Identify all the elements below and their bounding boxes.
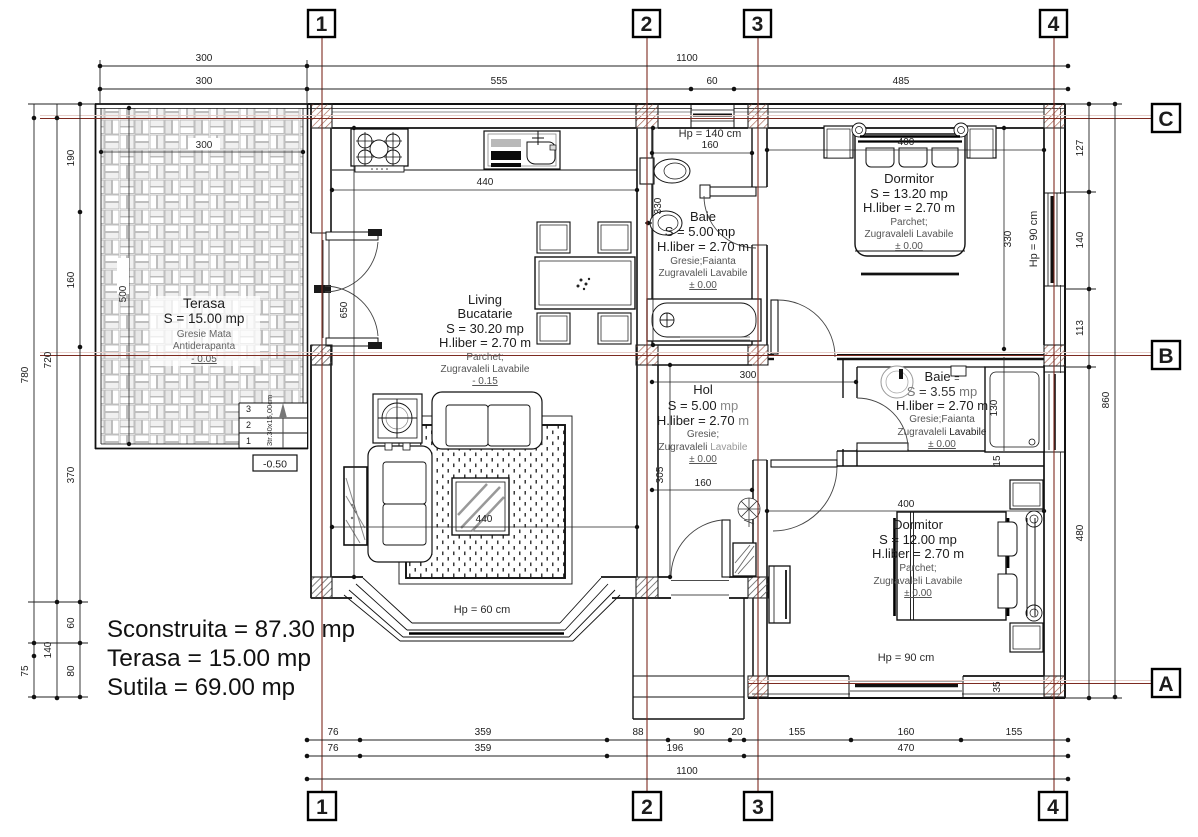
svg-text:S = 13.20 mp: S = 13.20 mp bbox=[870, 186, 948, 201]
svg-text:75: 75 bbox=[20, 665, 31, 677]
svg-text:Dormitor: Dormitor bbox=[893, 517, 944, 532]
svg-text:S = 5.00 mp: S = 5.00 mp bbox=[665, 224, 735, 239]
svg-text:1: 1 bbox=[316, 796, 328, 819]
svg-text:Gresie;Faianta: Gresie;Faianta bbox=[670, 256, 736, 267]
svg-text:Living: Living bbox=[468, 292, 502, 307]
svg-text:± 0.00: ± 0.00 bbox=[928, 439, 956, 450]
svg-text:Zugravaleli Lavabile: Zugravaleli Lavabile bbox=[659, 268, 748, 279]
svg-text:Zugravaleli Lavabile: Zugravaleli Lavabile bbox=[659, 442, 748, 453]
svg-text:Parchet;: Parchet; bbox=[899, 563, 936, 574]
svg-text:H.liber = 2.70 m: H.liber = 2.70 m bbox=[872, 546, 964, 561]
svg-text:359: 359 bbox=[475, 743, 492, 754]
svg-text:H.liber = 2.70 m: H.liber = 2.70 m bbox=[896, 398, 988, 413]
svg-text:3: 3 bbox=[246, 404, 251, 414]
svg-text:4: 4 bbox=[1047, 796, 1059, 819]
svg-text:140: 140 bbox=[43, 641, 54, 658]
svg-text:480: 480 bbox=[1075, 524, 1086, 541]
svg-text:2: 2 bbox=[246, 420, 251, 430]
svg-text:440: 440 bbox=[477, 177, 494, 188]
svg-text:Bucatarie: Bucatarie bbox=[458, 306, 513, 321]
svg-text:15: 15 bbox=[992, 455, 1003, 467]
svg-text:- 0.15: - 0.15 bbox=[472, 376, 498, 387]
svg-text:Sconstruita = 87.30 mp: Sconstruita = 87.30 mp bbox=[107, 616, 355, 643]
svg-text:Sutila = 69.00 mp: Sutila = 69.00 mp bbox=[107, 674, 295, 701]
svg-text:60: 60 bbox=[706, 76, 718, 87]
svg-text:Terasa: Terasa bbox=[183, 295, 225, 311]
svg-text:H.liber = 2.70 m: H.liber = 2.70 m bbox=[657, 413, 749, 428]
svg-text:Terasa = 15.00 mp: Terasa = 15.00 mp bbox=[107, 645, 311, 672]
svg-text:Hp = 60 cm: Hp = 60 cm bbox=[454, 604, 511, 616]
svg-text:Hp = 90 cm: Hp = 90 cm bbox=[1028, 211, 1040, 268]
svg-text:Hp = 90 cm: Hp = 90 cm bbox=[878, 652, 935, 664]
svg-text:1100: 1100 bbox=[676, 766, 698, 777]
svg-text:2: 2 bbox=[641, 796, 653, 819]
svg-text:S = 30.20 mp: S = 30.20 mp bbox=[446, 321, 524, 336]
svg-text:Parchet;: Parchet; bbox=[466, 352, 503, 363]
svg-text:Dormitor: Dormitor bbox=[884, 171, 935, 186]
svg-text:160: 160 bbox=[695, 478, 712, 489]
svg-text:113: 113 bbox=[1075, 320, 1086, 336]
svg-text:± 0.00: ± 0.00 bbox=[895, 241, 923, 252]
svg-text:300: 300 bbox=[196, 140, 213, 151]
svg-text:555: 555 bbox=[491, 76, 508, 87]
svg-text:90: 90 bbox=[693, 727, 705, 738]
svg-text:-0.50: -0.50 bbox=[263, 459, 287, 471]
svg-text:780: 780 bbox=[20, 366, 31, 383]
svg-text:Zugravaleli Lavabile: Zugravaleli Lavabile bbox=[865, 229, 954, 240]
svg-text:860: 860 bbox=[1101, 391, 1112, 408]
svg-text:H.liber = 2.70 m: H.liber = 2.70 m bbox=[439, 335, 531, 350]
svg-text:400: 400 bbox=[898, 137, 915, 148]
svg-text:3: 3 bbox=[752, 796, 764, 819]
svg-text:160: 160 bbox=[702, 140, 719, 151]
svg-text:359: 359 bbox=[475, 727, 492, 738]
svg-text:Gresie;Faianta: Gresie;Faianta bbox=[909, 414, 975, 425]
svg-text:± 0.00: ± 0.00 bbox=[689, 454, 717, 465]
svg-text:Zugravaleli Lavabile: Zugravaleli Lavabile bbox=[441, 364, 530, 375]
svg-text:330: 330 bbox=[1003, 230, 1014, 247]
svg-text:76: 76 bbox=[327, 727, 339, 738]
svg-text:1: 1 bbox=[316, 13, 328, 36]
svg-text:196: 196 bbox=[667, 743, 684, 754]
svg-text:470: 470 bbox=[898, 743, 915, 754]
svg-text:330: 330 bbox=[653, 197, 664, 214]
svg-text:500: 500 bbox=[118, 285, 129, 302]
svg-text:4: 4 bbox=[1048, 13, 1060, 36]
svg-text:H.liber = 2.70 m: H.liber = 2.70 m bbox=[657, 239, 749, 254]
svg-text:± 0.00: ± 0.00 bbox=[689, 280, 717, 291]
svg-text:S = 12.00 mp: S = 12.00 mp bbox=[879, 532, 957, 547]
svg-text:A: A bbox=[1158, 673, 1173, 696]
svg-text:20: 20 bbox=[731, 727, 743, 738]
svg-text:190: 190 bbox=[66, 149, 77, 166]
svg-text:650: 650 bbox=[339, 301, 350, 318]
svg-text:127: 127 bbox=[1075, 139, 1086, 156]
svg-text:H.liber = 2.70 m: H.liber = 2.70 m bbox=[863, 200, 955, 215]
svg-text:88: 88 bbox=[632, 727, 644, 738]
svg-text:Antiderapanta: Antiderapanta bbox=[173, 341, 236, 352]
svg-text:Hp = 140 cm: Hp = 140 cm bbox=[679, 128, 742, 140]
svg-text:2: 2 bbox=[641, 13, 653, 36]
svg-text:300: 300 bbox=[196, 76, 213, 87]
svg-text:155: 155 bbox=[1006, 727, 1023, 738]
svg-text:Hol: Hol bbox=[693, 382, 713, 397]
svg-text:1100: 1100 bbox=[676, 53, 698, 64]
svg-text:130: 130 bbox=[989, 399, 1000, 416]
svg-text:3tr.30x15,00cm: 3tr.30x15,00cm bbox=[265, 395, 274, 446]
svg-text:C: C bbox=[1158, 108, 1173, 131]
svg-text:Zugravaleli Lavabile: Zugravaleli Lavabile bbox=[898, 427, 987, 438]
svg-text:Gresie;: Gresie; bbox=[687, 429, 719, 440]
svg-text:370: 370 bbox=[66, 466, 77, 483]
svg-text:Parchet;: Parchet; bbox=[890, 217, 927, 228]
svg-text:485: 485 bbox=[893, 76, 910, 87]
svg-text:Baie: Baie bbox=[690, 209, 716, 224]
svg-text:160: 160 bbox=[898, 727, 915, 738]
svg-text:76: 76 bbox=[327, 743, 339, 754]
svg-text:160: 160 bbox=[66, 271, 77, 288]
svg-text:720: 720 bbox=[43, 351, 54, 368]
svg-text:B: B bbox=[1158, 345, 1173, 368]
svg-text:1: 1 bbox=[246, 436, 251, 446]
svg-text:± 0.00: ± 0.00 bbox=[904, 588, 932, 599]
svg-text:300: 300 bbox=[740, 370, 757, 381]
svg-text:Zugravaleli Lavabile: Zugravaleli Lavabile bbox=[874, 576, 963, 587]
svg-text:155: 155 bbox=[789, 727, 806, 738]
svg-text:140: 140 bbox=[1075, 231, 1086, 248]
svg-text:305: 305 bbox=[655, 466, 666, 483]
svg-text:S = 15.00 mp: S = 15.00 mp bbox=[164, 311, 245, 326]
svg-text:S = 5.00 mp: S = 5.00 mp bbox=[668, 398, 738, 413]
svg-text:300: 300 bbox=[196, 53, 213, 64]
svg-text:400: 400 bbox=[898, 499, 915, 510]
svg-text:440: 440 bbox=[476, 514, 493, 525]
svg-text:Gresie Mata: Gresie Mata bbox=[177, 329, 232, 340]
svg-text:3: 3 bbox=[752, 13, 764, 36]
svg-text:80: 80 bbox=[66, 665, 77, 677]
svg-text:S = 3.55 mp: S = 3.55 mp bbox=[907, 384, 977, 399]
svg-text:35: 35 bbox=[992, 681, 1003, 693]
svg-text:60: 60 bbox=[66, 617, 77, 629]
